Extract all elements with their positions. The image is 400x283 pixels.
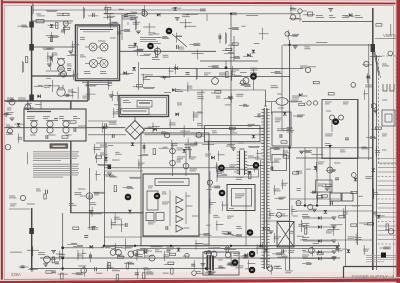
components cluster r240c200 <box>203 244 220 256</box>
components cluster r220c340 <box>348 224 362 244</box>
components cluster r60c140 <box>141 74 164 84</box>
corner label 229A <box>11 272 21 277</box>
components cluster r220c320 <box>326 225 343 236</box>
cluster left low <box>9 195 93 209</box>
components cluster r100c100 <box>113 105 122 118</box>
regulator inner labels <box>148 186 199 230</box>
transistor Q4601 <box>89 43 97 51</box>
wire v41 <box>40 101 42 110</box>
wire main AC bus 2 <box>145 127 265 129</box>
wire bus y121 <box>88 120 117 122</box>
transistor Q4612 <box>116 250 122 256</box>
components cluster r180c360 <box>373 189 379 199</box>
wire v357 <box>357 100 359 245</box>
label B+ trimmer <box>122 17 138 25</box>
wire top right y21 <box>302 21 373 23</box>
components cluster r140c80 <box>93 144 101 163</box>
components cluster r0c120 <box>122 12 138 20</box>
diode output row 4 <box>302 249 336 254</box>
component chain right <box>182 144 197 177</box>
components cluster r140c20 <box>27 152 29 164</box>
components cluster r160c100 <box>97 165 117 181</box>
wire main left bus <box>31 6 33 101</box>
components cluster r40c160 <box>163 45 185 57</box>
components cluster r20c60 <box>61 21 71 34</box>
svg-text:POWER SUPPLY , 2 A(: POWER SUPPLY , 2 A( <box>352 274 400 279</box>
components cluster r180c340 <box>351 191 363 196</box>
title text <box>352 274 400 279</box>
components cluster r260c160 <box>163 262 174 274</box>
interlock label box <box>137 101 152 108</box>
components cluster r140c180 <box>184 138 197 158</box>
wire ac bus lower right <box>145 134 265 136</box>
components cluster r200c80 <box>89 203 102 217</box>
chopper shield box <box>205 126 261 142</box>
components cluster r100c260 <box>270 102 272 114</box>
svg-text:V587G: V587G <box>383 33 396 38</box>
components cluster r80c140 <box>143 87 155 88</box>
interlock block <box>119 96 169 117</box>
comparators U4601c-f <box>146 197 183 233</box>
wire bus y61 right <box>200 60 258 62</box>
diode output row 1 <box>302 215 336 220</box>
ic U4601 inner labels <box>80 38 116 74</box>
components cluster r40c280 <box>293 46 298 49</box>
components cluster r260c100 <box>107 261 121 280</box>
wire v89 <box>89 168 91 228</box>
components cluster r160c280 <box>293 171 303 174</box>
components cluster r260c40 <box>43 264 56 273</box>
left column parts right mid <box>291 96 318 105</box>
components cluster r200c300 <box>302 204 317 218</box>
connector J4803 <box>29 95 34 101</box>
components cluster r140c120 <box>131 142 135 145</box>
components cluster r80c160 <box>164 90 183 93</box>
components cluster r40c220 <box>222 43 240 58</box>
regulator inner rect <box>147 191 158 210</box>
warning text <box>33 152 79 177</box>
components cluster r160c340 <box>351 173 357 181</box>
wire mid vertical 2 <box>281 45 283 130</box>
components cluster r140c0 <box>5 144 10 149</box>
components cluster r220c360 <box>359 223 374 225</box>
components cluster r60c220 <box>226 66 242 81</box>
wire y237 <box>104 236 264 238</box>
transistor Q2209 <box>38 253 64 264</box>
opto coupler block <box>227 185 255 211</box>
components cluster r240c240 <box>240 244 261 258</box>
wire bottom bus 3 <box>32 268 210 270</box>
components cluster r220c380 <box>386 224 394 234</box>
components cluster r20c180 <box>180 19 197 29</box>
wire bus y133 <box>88 134 126 136</box>
regulator L4805 oval <box>266 94 303 108</box>
transistor Q4812 <box>296 201 301 206</box>
components cluster r0c100 <box>103 5 124 20</box>
wire center v231 <box>230 13 232 148</box>
components cluster r160c220 <box>217 165 243 179</box>
transformer T4603 <box>203 252 239 275</box>
components cluster r240c220 <box>221 246 240 264</box>
junction dots v62 <box>61 246 64 259</box>
wire v226 <box>225 61 227 68</box>
components cluster r20c360 <box>376 24 382 26</box>
wire v62 <box>62 213 64 271</box>
wire y165 right <box>247 164 264 166</box>
components cluster r120c0 <box>6 123 25 143</box>
wire y199 right <box>290 198 340 200</box>
components cluster r240c0 <box>10 251 22 253</box>
components cluster r260c120 <box>124 262 139 279</box>
components cluster r240c160 <box>163 247 180 261</box>
wire output ladder <box>378 159 397 245</box>
interlock box2 <box>121 108 150 114</box>
components cluster r160c300 <box>306 162 317 172</box>
components cluster r200c60 <box>69 203 77 205</box>
components cluster r0c60 <box>63 13 69 15</box>
components cluster r20c280 <box>285 30 299 40</box>
wire right hbus 158 <box>296 157 373 159</box>
components cluster r240c20 <box>27 246 39 256</box>
regulator title box <box>155 179 189 186</box>
diode output row 3 <box>302 238 336 243</box>
components cluster r40c40 <box>43 47 55 63</box>
components cluster r200c340 <box>343 206 360 218</box>
wire bus y167 <box>104 167 239 169</box>
wire v345 <box>345 206 347 267</box>
components cluster r220c300 <box>302 220 307 234</box>
wire right aux bus <box>376 55 378 270</box>
wire y247 left <box>63 247 104 249</box>
components cluster r20c140 <box>143 23 159 35</box>
wire v246 <box>245 188 247 246</box>
test point TP10 <box>249 251 256 258</box>
components cluster r80c80 <box>83 85 97 100</box>
test point TP6 <box>218 165 225 172</box>
test point TP11 <box>232 259 239 266</box>
wire heavy y213 <box>71 212 143 214</box>
wire heavy filter down <box>70 141 72 213</box>
components cluster r200c120 <box>128 210 132 213</box>
transistor Q4810 <box>318 162 340 191</box>
wire heavy ac across <box>5 100 89 102</box>
components cluster r260c300 <box>302 263 312 265</box>
transformer T4801 pair <box>52 53 72 72</box>
transformer T4602 winding <box>261 106 269 269</box>
components cluster r200c320 <box>324 201 345 218</box>
components cluster r220c220 <box>222 227 242 237</box>
components cluster r60c40 <box>46 60 65 78</box>
svg-text:229A: 229A <box>11 272 21 277</box>
wire smps out y51 <box>120 50 217 52</box>
components cluster r240c80 <box>82 245 93 262</box>
components cluster r60c180 <box>186 68 198 80</box>
connector J4802 <box>29 44 34 51</box>
components cluster r120c220 <box>229 127 235 129</box>
ic U4601 caption <box>82 82 112 84</box>
wire v138 <box>138 62 140 90</box>
wire winding feed <box>265 90 267 106</box>
wire heavy bottom left <box>31 208 33 270</box>
test point TP4 <box>154 193 161 200</box>
wire diagonal fanout <box>374 52 381 78</box>
components cluster r120c160 <box>157 119 176 138</box>
components cluster r100c20 <box>24 99 42 109</box>
test point TP8 <box>219 190 226 197</box>
wire top bus 2 <box>104 13 300 15</box>
components cluster r20c260 <box>259 28 269 40</box>
capacitor C4805 <box>290 8 313 22</box>
components cluster r260c20 <box>19 266 38 271</box>
components cluster r0c40 <box>46 10 64 15</box>
components cluster r0c300 <box>303 14 315 16</box>
transistor Q4613 <box>128 251 134 257</box>
components cluster r60c240 <box>242 68 257 76</box>
components cluster r220c60 <box>73 227 79 229</box>
component chain left <box>100 142 120 176</box>
title note text <box>366 256 396 262</box>
transistor Q4604a <box>100 60 108 68</box>
components cluster r40c380 <box>388 51 393 56</box>
wire v260 <box>260 160 262 246</box>
components cluster r260c240 <box>245 260 255 270</box>
test point 63 <box>332 118 339 125</box>
wire y76 mid <box>145 76 290 78</box>
deflection dashed enclosure <box>379 56 397 164</box>
components cluster r200c220 <box>222 201 234 218</box>
components cluster r180c120 <box>123 186 134 188</box>
left edge labels <box>6 98 14 134</box>
right bus components y68 <box>290 66 311 73</box>
diode output row 2 <box>302 224 336 229</box>
components cluster r160c240 <box>247 162 259 179</box>
components cluster r160c80 <box>95 171 101 181</box>
components cluster r40c60 <box>67 41 79 56</box>
ac plug P4801 <box>57 85 75 96</box>
components cluster r180c40 <box>46 190 48 194</box>
transformer label box <box>218 169 259 177</box>
components cluster r180c100 <box>114 186 116 192</box>
wire v330 <box>329 146 331 206</box>
components cluster r180c300 <box>310 191 323 203</box>
components cluster r40c360 <box>370 55 382 57</box>
ic U4601 title <box>80 30 113 32</box>
components cluster r20c380 <box>390 24 392 36</box>
transistor Q4801 standby <box>78 189 99 199</box>
components cluster r80c120 <box>133 85 143 87</box>
ac input labels <box>9 68 64 105</box>
components cluster r80c280 <box>299 93 302 97</box>
wire bus to smps <box>32 75 76 77</box>
components cluster r100c220 <box>225 104 231 106</box>
components cluster r180c260 <box>274 185 287 199</box>
components cluster r140c220 <box>226 145 235 151</box>
wire hot gnd bus <box>104 245 340 247</box>
transistor Q4608 <box>140 38 161 60</box>
components cluster r140c240 <box>248 147 263 160</box>
components cluster r40c300 <box>304 47 310 49</box>
components cluster r200c260 <box>269 210 285 220</box>
components cluster r40c140 <box>140 44 161 57</box>
components cluster r140c300 <box>299 150 323 154</box>
components cluster r20c40 <box>46 22 60 41</box>
components cluster r60c260 <box>271 72 282 74</box>
components cluster r40c20 <box>25 57 27 63</box>
components cluster r200c200 <box>209 198 220 217</box>
regulator IC4601 block <box>143 174 199 236</box>
black mark bottom right <box>381 253 386 258</box>
ic U4601 SMPS control block <box>76 25 120 81</box>
wire heavy filter drop <box>70 101 72 110</box>
components cluster r100c180 <box>193 111 203 121</box>
wire pwrout <box>283 44 373 46</box>
transistor Q4602 <box>100 43 108 51</box>
components cluster r80c240 <box>239 80 251 87</box>
components cluster r0c80 <box>84 7 99 19</box>
wire v253 drop <box>253 68 255 90</box>
components cluster r80c100 <box>107 80 123 102</box>
chopper transformer T4601 <box>237 143 256 175</box>
components cluster r80c200 <box>211 91 221 98</box>
components cluster r240c300 <box>309 244 324 257</box>
components cluster r20c220 <box>225 28 239 45</box>
components cluster r120c360 <box>366 127 381 138</box>
components cluster r240c280 <box>277 249 294 258</box>
components cluster r20c160 <box>158 33 182 43</box>
components cluster r0c280 <box>289 5 299 20</box>
test point TP2 <box>166 28 173 35</box>
wire v217 <box>216 164 218 183</box>
components cluster r20c100 <box>108 18 119 28</box>
components cluster r120c140 <box>144 123 160 133</box>
components cluster r80c20 <box>34 85 44 98</box>
wire right hbus 205 <box>296 205 373 207</box>
labels left standby <box>36 189 46 199</box>
components cluster r120c240 <box>248 124 256 138</box>
components cluster r60c20 <box>23 61 24 73</box>
components cluster r140c280 <box>283 147 291 158</box>
capacitor C4602 <box>117 32 121 34</box>
components cluster r80c220 <box>224 93 244 103</box>
bridge rectifier D4801 <box>126 121 145 140</box>
components cluster r240c320 <box>332 242 343 258</box>
resistor block pair R4815 R4816 <box>330 193 353 201</box>
components cluster r100c0 <box>2 113 13 117</box>
components cluster r120c260 <box>277 129 285 131</box>
wire v305 <box>304 148 306 206</box>
components cluster r60c200 <box>208 66 219 68</box>
components cluster r140c100 <box>108 146 122 155</box>
components cluster r180c280 <box>281 179 301 190</box>
wire bridge feed <box>134 117 136 121</box>
components cluster r160c360 <box>365 168 375 178</box>
warning label <box>50 144 68 148</box>
hot area boundary <box>141 133 209 246</box>
wire right hbus 211 <box>296 210 373 212</box>
test point TP7 <box>253 162 260 169</box>
fuse F4801 <box>36 14 44 23</box>
wire diag dot41 <box>172 34 187 47</box>
power filter board box <box>24 109 86 141</box>
components cluster r220c280 <box>289 224 306 236</box>
transistor Q4603 <box>90 60 98 68</box>
components cluster r260c260 <box>268 265 282 275</box>
components cluster r240c40 <box>49 251 65 263</box>
transistor Q4616 <box>225 252 230 257</box>
components cluster r40c180 <box>189 44 203 60</box>
deflection parts <box>382 64 395 150</box>
components cluster r40c240 <box>243 44 259 57</box>
component chain mid <box>170 144 183 177</box>
components cluster r20c240 <box>241 25 245 27</box>
power filter board title <box>27 111 51 113</box>
components cluster r0c340 <box>345 13 355 17</box>
components cluster r160c260 <box>267 162 279 170</box>
components cluster r60c160 <box>160 64 177 79</box>
components cluster r80c260 <box>271 86 279 88</box>
components cluster r220c200 <box>200 220 224 235</box>
components cluster r140c160 <box>159 140 185 159</box>
components cluster r160c320 <box>326 170 336 172</box>
components cluster r100c240 <box>239 104 264 117</box>
junction dots net <box>62 13 332 270</box>
components cluster r120c180 <box>180 123 205 137</box>
wire top rail y10 <box>32 9 205 11</box>
components cluster r80c60 <box>64 87 79 99</box>
wire y68 <box>140 68 290 70</box>
components cluster r0c20 <box>32 3 45 16</box>
transistor Q4614 <box>146 251 155 261</box>
components cluster r80c40 <box>44 80 58 92</box>
junction dot <box>225 66 228 69</box>
connector J4801 <box>29 22 34 28</box>
components cluster r0c180 <box>182 14 198 16</box>
title block frame <box>344 267 397 279</box>
components cluster r200c360 <box>373 212 385 218</box>
v587g label <box>383 33 396 38</box>
components cluster r260c200 <box>200 264 225 275</box>
components cluster r240c60 <box>67 244 83 260</box>
wire right hbus 147 <box>270 147 373 149</box>
sub block right A <box>272 112 291 146</box>
degauss X-box <box>269 214 294 251</box>
wire bus y47 <box>32 46 76 48</box>
components cluster r220c80 <box>84 226 98 237</box>
components cluster r220c100 <box>111 219 125 229</box>
components cluster r240c120 <box>122 238 143 260</box>
components cluster r240c340 <box>342 249 350 253</box>
components cluster r240c380 <box>379 247 391 249</box>
transistor Q4611 <box>110 250 116 256</box>
components cluster r180c200 <box>207 180 221 189</box>
wire main AC bus <box>5 127 126 129</box>
transistor Q4605 <box>240 73 257 84</box>
components cluster r240c180 <box>183 240 204 258</box>
wire v234 <box>233 36 235 61</box>
components cluster r260c140 <box>143 268 154 279</box>
sub block right B parts <box>325 102 349 152</box>
components cluster r240c140 <box>136 247 162 258</box>
wire bottom bus 2 <box>40 257 340 259</box>
components cluster r80c320 <box>328 93 334 95</box>
components cluster r260c80 <box>81 266 102 276</box>
test point TP9 <box>247 229 254 236</box>
components cluster r120c280 <box>282 128 294 132</box>
wire v202 <box>201 90 203 128</box>
components cluster r160c200 <box>216 162 225 173</box>
wire right hbus 240 <box>300 239 373 241</box>
test point TP3 <box>250 73 257 80</box>
